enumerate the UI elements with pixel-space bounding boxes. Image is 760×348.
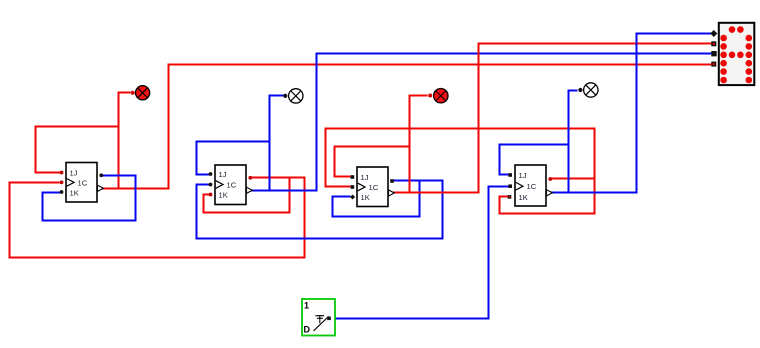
FF1 pin 1J dot bbox=[60, 171, 64, 175]
FF3 clock chevron bbox=[358, 183, 365, 191]
wire Q2bar branch to lamp L2 bbox=[270, 96, 283, 191]
D3 body bbox=[434, 89, 448, 103]
L2 terminal dot bbox=[283, 94, 287, 98]
FF1 body bbox=[66, 163, 97, 203]
FF2 body bbox=[215, 165, 246, 205]
svg-text:1C: 1C bbox=[369, 183, 379, 192]
net Q4bar: wire Qbar4 to display pin1 bbox=[551, 34, 712, 193]
FF4 pin 1K square bbox=[508, 195, 512, 199]
WIRES-NETS bbox=[10, 34, 712, 319]
FF2 clock chevron bbox=[216, 181, 223, 189]
svg-text:1J: 1J bbox=[219, 170, 227, 179]
FF4 pin 1J square bbox=[508, 173, 512, 177]
D3 cross bbox=[436, 91, 446, 101]
FF1 clock chevron bbox=[67, 179, 74, 187]
svg-text:1: 1 bbox=[304, 301, 309, 311]
lamp L2 (off) bbox=[283, 89, 303, 103]
FF4 pin 1K red center bbox=[509, 196, 511, 198]
FF2 pin 1K dot bbox=[209, 193, 213, 197]
display body bbox=[719, 23, 755, 85]
flip-flop FF2 bbox=[209, 165, 253, 205]
wire Q1bar branch to LED D1 bbox=[119, 93, 130, 189]
net Q2: wire Q2 to 1C1 bbox=[10, 178, 305, 258]
FF1 Qbar inverter wedge bbox=[98, 185, 104, 191]
FF2 pin Q dot bbox=[248, 176, 252, 180]
svg-text:1C: 1C bbox=[227, 181, 237, 190]
display pin2 red center bbox=[713, 43, 715, 45]
wire Q4 branch to 1K4 loop bbox=[500, 179, 595, 214]
FF4 clock chevron bbox=[516, 182, 523, 190]
FF3 pin Q square bbox=[390, 179, 394, 183]
lamp L4 (off) bbox=[578, 83, 598, 97]
svg-text:1K: 1K bbox=[361, 193, 370, 202]
L4 cross bbox=[586, 85, 596, 95]
FF4 pin 1C square bbox=[508, 184, 512, 188]
S1 output pin square bbox=[327, 317, 331, 321]
FF1 pin 1C dot bbox=[60, 181, 64, 185]
flip-flop FF4 bbox=[508, 165, 553, 206]
seven-segment display U5 bbox=[710, 23, 754, 85]
wire Q1bar branch to 1J1 bbox=[36, 127, 119, 173]
svg-text:1C: 1C bbox=[527, 182, 537, 191]
S1 contact bars bbox=[315, 316, 324, 324]
flip-flop FF1 bbox=[60, 163, 104, 203]
net CLK: wire switch S1 to 1C4 bbox=[335, 187, 508, 319]
wire Q3bar branch to 1J3 bbox=[335, 147, 410, 177]
svg-text:1K: 1K bbox=[219, 191, 228, 200]
FF3 pin 1C square bbox=[351, 185, 355, 189]
L2 cross bbox=[291, 91, 301, 101]
FF1 pin Q dot bbox=[99, 173, 103, 177]
FF3 pin 1K diamond bbox=[350, 194, 355, 199]
D3 terminal dot bbox=[428, 94, 432, 98]
D1 body bbox=[136, 86, 150, 100]
net Q1: wire Q1 to 1K1 loop bbox=[43, 176, 136, 221]
FF1 pin 1K dot bbox=[60, 190, 64, 194]
wire Q3 branch to 1K3 loop bbox=[333, 181, 420, 217]
L2 body bbox=[289, 89, 303, 103]
wire Q2 branch to 1K2 loop bbox=[204, 178, 290, 213]
svg-text:D: D bbox=[304, 325, 311, 335]
svg-text:1K: 1K bbox=[519, 193, 528, 202]
FF2 pin 1J dot bbox=[209, 172, 213, 176]
FF2 Qbar inverter wedge bbox=[247, 187, 253, 193]
FF4 pin Q ring dot bbox=[548, 177, 552, 181]
wire Q2bar branch to 1J2 bbox=[197, 142, 270, 175]
svg-text:1K: 1K bbox=[70, 189, 79, 198]
display pin2 square bbox=[711, 41, 716, 46]
wire Q4bar branch to lamp L4 bbox=[569, 91, 577, 193]
display pin4 square bbox=[711, 62, 716, 67]
LED D3 (lit) bbox=[428, 89, 448, 103]
svg-text:1J: 1J bbox=[519, 171, 527, 180]
FF3 Qbar inverter wedge bbox=[389, 190, 395, 196]
net Q2bar: wire Qbar2 to display pin3 bbox=[251, 54, 712, 191]
net Q3: wire Q3 to 1C2 bbox=[197, 181, 443, 239]
S1 lever bbox=[314, 316, 329, 330]
svg-text:1J: 1J bbox=[361, 173, 369, 182]
display dot matrix digit A bbox=[720, 26, 752, 83]
FF2 pin 1C dot bbox=[209, 183, 213, 187]
L4 terminal dot bbox=[578, 88, 582, 92]
svg-text:1J: 1J bbox=[70, 169, 78, 178]
wire Q3bar branch to LED D3 bbox=[410, 96, 427, 193]
FF3 pin 1J square bbox=[351, 175, 355, 179]
display pin4 red center bbox=[713, 63, 715, 65]
flip-flop FF3 bbox=[350, 167, 394, 207]
LED D1 (lit) bbox=[131, 86, 150, 100]
FF4 Qbar inverter wedge bbox=[547, 190, 553, 196]
svg-text:1C: 1C bbox=[78, 179, 88, 188]
net Q3bar: wire Qbar3 to display pin2 bbox=[393, 44, 712, 193]
display pin1 diamond bbox=[710, 30, 717, 37]
D1 cross bbox=[138, 88, 148, 98]
net Q1bar: wire Qbar1 to display pin4 bbox=[101, 65, 712, 189]
L4 body bbox=[584, 83, 598, 97]
FF3 body bbox=[357, 167, 388, 207]
S1 body bbox=[302, 299, 335, 336]
D1 terminal dot bbox=[131, 91, 135, 95]
display pin3 square bbox=[711, 51, 716, 56]
net Q4: wire Q4 to 1C3 bbox=[326, 129, 595, 187]
wire Q4bar branch to 1J4 bbox=[500, 145, 569, 175]
FF4 body bbox=[515, 165, 546, 206]
switch S1 (logic input, value 1) bbox=[302, 299, 335, 336]
